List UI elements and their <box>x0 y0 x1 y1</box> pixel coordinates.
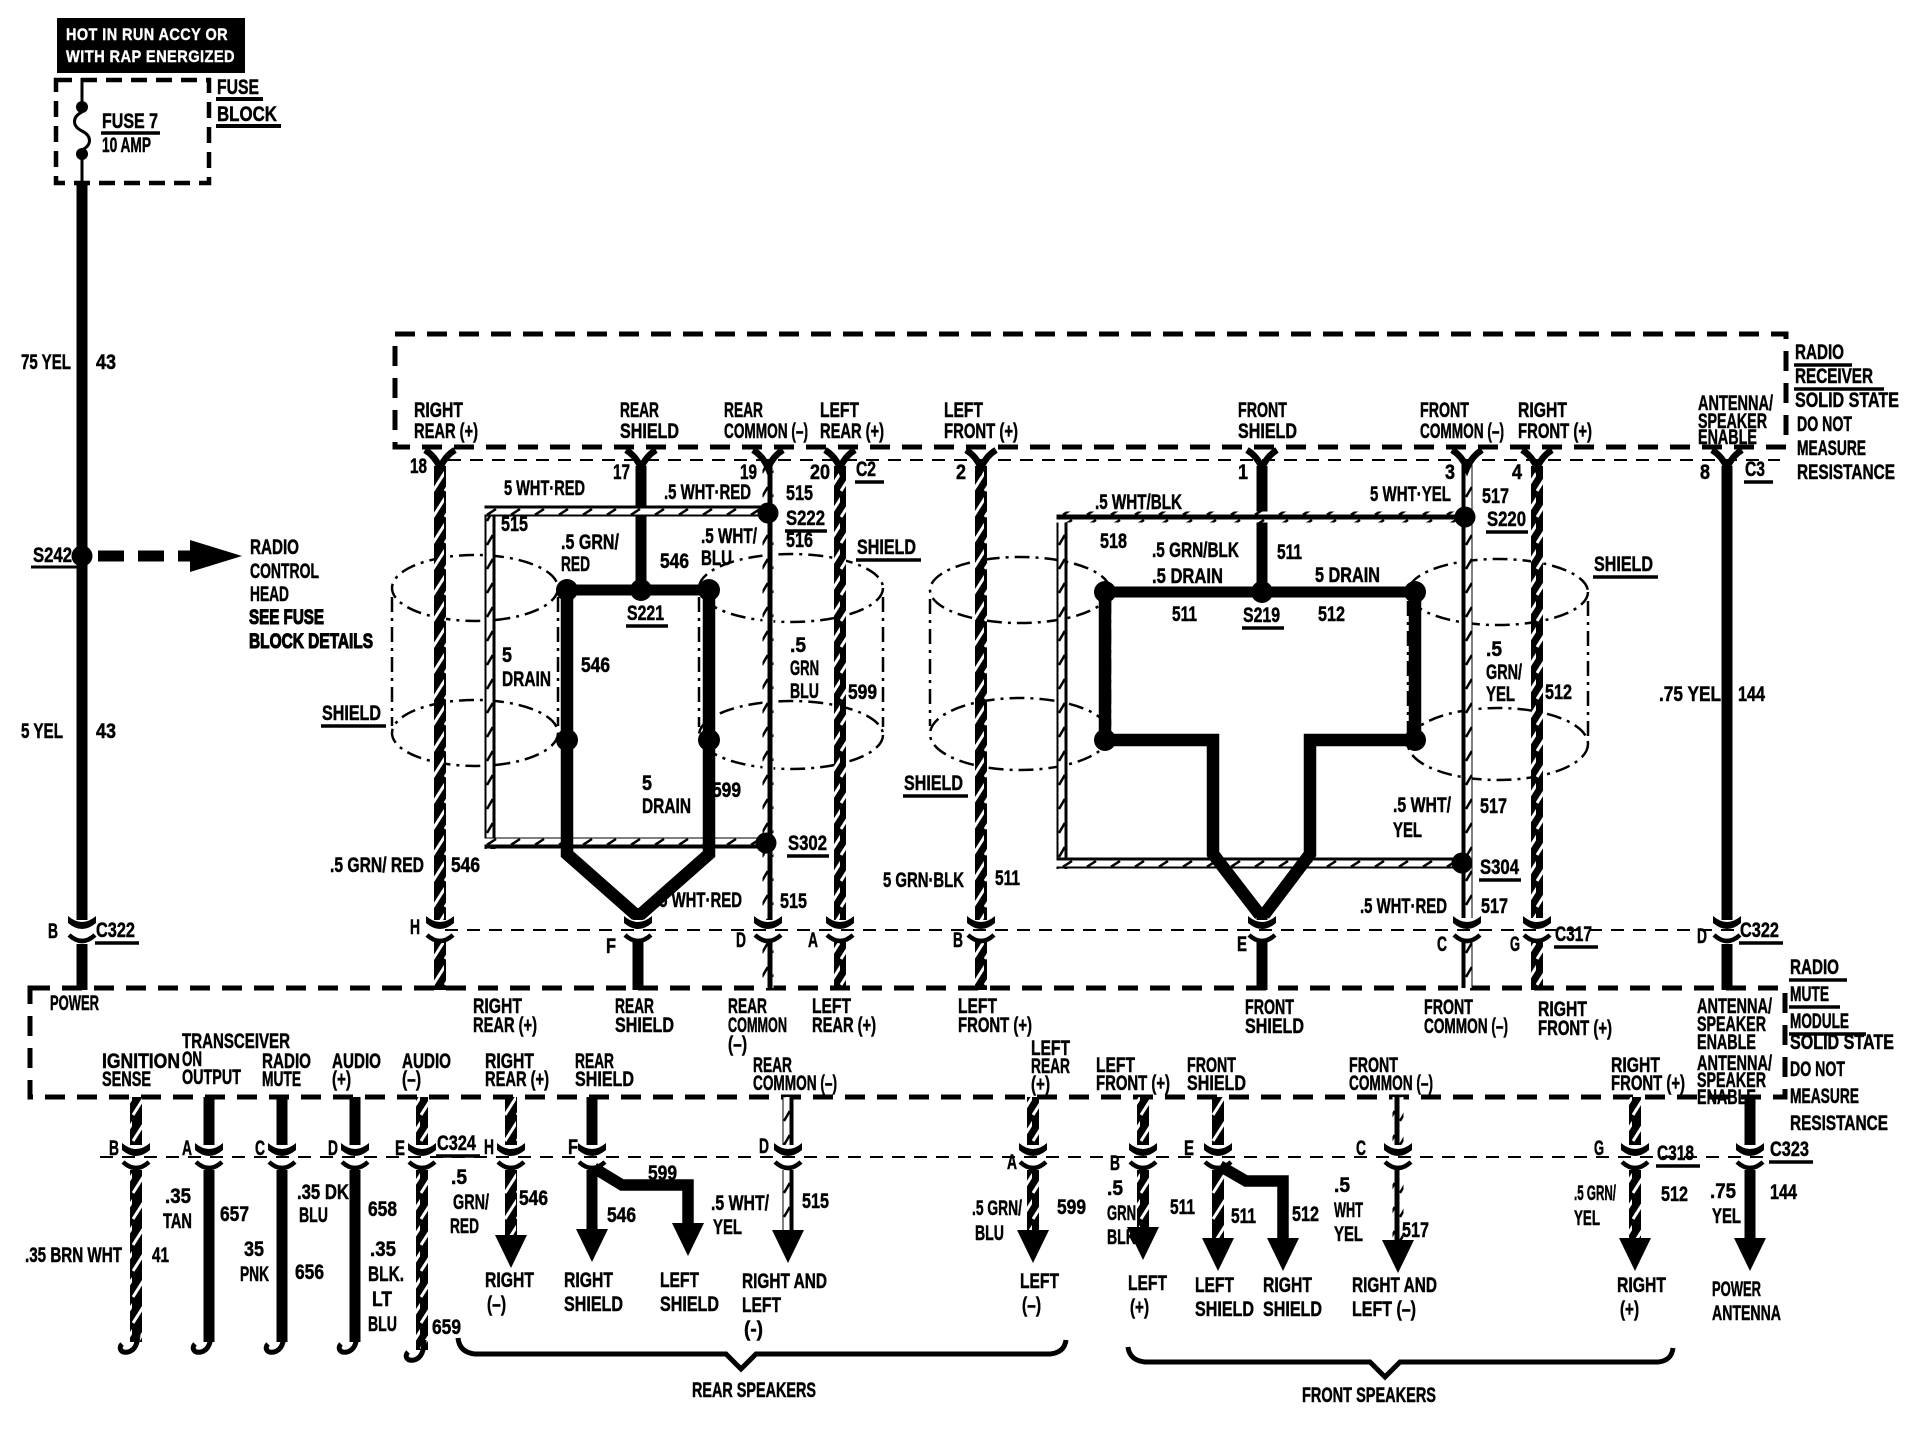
svg-text:F: F <box>568 1136 578 1159</box>
svg-text:.35: .35 <box>370 1238 396 1261</box>
svg-text:RIGHT: RIGHT <box>414 399 463 422</box>
svg-text:BLK.: BLK. <box>368 1263 404 1286</box>
connector line C324/C318/C323 below module <box>100 1156 1765 1158</box>
svg-text:5 GRN·BLK: 5 GRN·BLK <box>883 869 964 892</box>
svg-text:LEFT: LEFT <box>1195 1274 1234 1297</box>
module bottom wire E front shield 511 <box>1212 1097 1224 1145</box>
svg-text:B: B <box>953 929 963 952</box>
svg-text:DRAIN: DRAIN <box>502 668 551 691</box>
svg-text:REAR (+): REAR (+) <box>820 420 884 443</box>
svg-text:FRONT (+): FRONT (+) <box>1096 1072 1170 1095</box>
svg-text:599: 599 <box>1057 1196 1086 1219</box>
svg-text:(-): (-) <box>744 1318 763 1341</box>
fuse block dashed box <box>56 80 209 183</box>
svg-text:LEFT: LEFT <box>1020 1270 1059 1293</box>
svg-text:.35 DK: .35 DK <box>297 1181 349 1204</box>
svg-text:SHIELD: SHIELD <box>564 1293 623 1316</box>
svg-text:FRONT (+): FRONT (+) <box>958 1014 1032 1037</box>
svg-text:ENABLE: ENABLE <box>1698 426 1757 449</box>
svg-text:(+): (+) <box>1620 1298 1639 1321</box>
svg-text:(–): (–) <box>728 1033 747 1056</box>
radio control head note <box>249 536 373 653</box>
svg-text:.5: .5 <box>1334 1174 1350 1197</box>
svg-text:C317: C317 <box>1555 923 1592 946</box>
svg-text:RADIO: RADIO <box>1795 341 1844 364</box>
module bottom wire C front common shield-style 517 <box>1393 1097 1404 1145</box>
svg-text:BLK: BLK <box>1107 1226 1136 1249</box>
svg-text:515: 515 <box>501 513 528 536</box>
svg-text:A: A <box>182 1137 192 1160</box>
svg-text:YEL: YEL <box>1486 683 1515 706</box>
svg-text:RED: RED <box>561 553 590 576</box>
svg-text:REAR (+): REAR (+) <box>414 420 478 443</box>
svg-text:(–): (–) <box>402 1068 421 1091</box>
receiver pin connector line C2/C3 <box>448 459 1780 461</box>
svg-text:SHIELD: SHIELD <box>1594 553 1653 576</box>
svg-text:SHIELD: SHIELD <box>1238 420 1297 443</box>
pin fork 17 <box>626 450 656 468</box>
svg-text:75 YEL: 75 YEL <box>21 351 71 374</box>
pin fork 20 <box>825 450 855 468</box>
svg-text:BLU: BLU <box>701 547 732 570</box>
svg-text:.5 WHT/: .5 WHT/ <box>711 1192 769 1215</box>
svg-text:35: 35 <box>244 1238 264 1261</box>
svg-text:1: 1 <box>1238 461 1248 484</box>
svg-text:.5 GRN/: .5 GRN/ <box>972 1197 1022 1220</box>
svg-text:.5: .5 <box>1107 1177 1123 1200</box>
svg-text:SEE FUSE: SEE FUSE <box>249 606 324 629</box>
node front shield right drain tap <box>1404 729 1426 751</box>
svg-text:RESISTANCE: RESISTANCE <box>1790 1112 1888 1135</box>
splice S302 <box>756 833 777 854</box>
pin fork 3 <box>1452 450 1482 468</box>
node rear shield left drain tap <box>556 729 578 751</box>
svg-text:18: 18 <box>410 455 427 478</box>
power feed wire 43 from fuse to module <box>77 181 88 920</box>
module bottom wire C radio mute <box>277 1097 288 1145</box>
svg-text:S302: S302 <box>788 832 827 855</box>
svg-text:.5 DRAIN: .5 DRAIN <box>1152 565 1223 588</box>
rear speakers brace <box>458 1338 1066 1369</box>
svg-text:BLU: BLU <box>368 1313 397 1336</box>
svg-text:5: 5 <box>642 772 652 795</box>
svg-text:FRONT (+): FRONT (+) <box>1538 1017 1612 1040</box>
svg-text:515: 515 <box>780 890 807 913</box>
svg-text:SHIELD: SHIELD <box>904 772 963 795</box>
svg-text:RIGHT: RIGHT <box>1617 1274 1666 1297</box>
svg-text:POWER: POWER <box>1712 1278 1761 1301</box>
svg-text:.5 GRN/ RED: .5 GRN/ RED <box>330 854 424 877</box>
svg-text:YEL: YEL <box>1334 1223 1363 1246</box>
svg-text:WITH RAP ENERGIZED: WITH RAP ENERGIZED <box>66 47 235 66</box>
svg-text:517: 517 <box>1481 895 1508 918</box>
svg-text:.5 GRN/BLK: .5 GRN/BLK <box>1152 539 1239 562</box>
wire 3 front common shield-style <box>1462 464 1473 918</box>
module bottom wire F rear shield 546 <box>587 1097 598 1145</box>
front shield wire below E connector <box>1257 942 1268 990</box>
front speakers brace <box>1128 1347 1673 1377</box>
svg-text:SENSE: SENSE <box>102 1068 151 1091</box>
svg-text:C: C <box>1437 933 1447 956</box>
svg-text:GRN/: GRN/ <box>453 1191 489 1214</box>
svg-text:41: 41 <box>152 1244 169 1267</box>
svg-text:4: 4 <box>1512 461 1522 484</box>
svg-text:.5: .5 <box>451 1166 467 1189</box>
svg-text:C: C <box>255 1137 265 1160</box>
svg-text:ANTENNA: ANTENNA <box>1712 1302 1781 1325</box>
svg-text:FRONT (+): FRONT (+) <box>1518 420 1592 443</box>
svg-text:RADIO: RADIO <box>250 536 299 559</box>
rear-left shield cylinder <box>392 555 558 766</box>
svg-text:5 WHT·YEL: 5 WHT·YEL <box>1370 483 1451 506</box>
svg-text:C323: C323 <box>1770 1138 1809 1161</box>
svg-text:D: D <box>736 929 746 952</box>
module bottom wire antenna .75 YEL 144 to power antenna <box>1745 1097 1756 1145</box>
svg-text:FUSE 7: FUSE 7 <box>102 110 158 133</box>
svg-text:YEL: YEL <box>1574 1207 1600 1230</box>
svg-text:43: 43 <box>96 720 116 743</box>
svg-text:ENABLE: ENABLE <box>1697 1031 1756 1054</box>
dashed arrow to radio control head <box>98 540 242 572</box>
svg-text:FRONT SPEAKERS: FRONT SPEAKERS <box>1302 1384 1436 1407</box>
svg-text:SHIELD: SHIELD <box>322 702 381 725</box>
svg-text:RIGHT: RIGHT <box>564 1269 613 1292</box>
svg-text:REAR: REAR <box>724 399 763 422</box>
svg-text:POWER: POWER <box>50 992 99 1015</box>
module bottom wire A left rear (+) .5 GRN/BLU 599 <box>1027 1097 1039 1145</box>
connector B C322 on power wire <box>68 916 96 941</box>
svg-text:HOT IN RUN ACCY OR: HOT IN RUN ACCY OR <box>66 25 228 44</box>
svg-text:RESISTANCE: RESISTANCE <box>1797 461 1895 484</box>
wire 2 left front (+) hatched <box>975 466 987 920</box>
module bottom wire E audio (-) hatched <box>416 1097 428 1145</box>
svg-text:.5: .5 <box>790 634 806 657</box>
svg-text:C324: C324 <box>437 1132 476 1155</box>
svg-text:CONTROL: CONTROL <box>250 560 319 583</box>
svg-text:C2: C2 <box>856 458 876 481</box>
svg-text:LEFT (–): LEFT (–) <box>1352 1298 1416 1321</box>
svg-text:(+): (+) <box>1031 1073 1050 1096</box>
svg-text:512: 512 <box>1545 681 1572 704</box>
svg-text:10 AMP: 10 AMP <box>102 134 151 157</box>
svg-text:BLU: BLU <box>299 1204 328 1227</box>
svg-text:515: 515 <box>802 1190 829 1213</box>
svg-text:17: 17 <box>613 461 630 484</box>
svg-text:REAR (+): REAR (+) <box>812 1014 876 1037</box>
wire 8 antenna/speaker enable .75 YEL 144 <box>1722 466 1733 920</box>
svg-text:SHIELD: SHIELD <box>857 536 916 559</box>
svg-text:5 DRAIN: 5 DRAIN <box>1315 564 1380 587</box>
svg-text:SHIELD: SHIELD <box>1245 1015 1304 1038</box>
splice S219 node <box>1251 581 1273 603</box>
svg-text:144: 144 <box>1770 1181 1797 1204</box>
connector line C317/C322 above module <box>445 929 1740 931</box>
svg-text:SOLID STATE: SOLID STATE <box>1790 1031 1894 1054</box>
svg-text:511: 511 <box>1172 603 1197 626</box>
svg-text:.5 GRN/: .5 GRN/ <box>561 531 619 554</box>
svg-text:LEFT: LEFT <box>660 1269 699 1292</box>
node rear drain bus left <box>556 579 578 601</box>
svg-text:.5 WHT·RED: .5 WHT·RED <box>655 889 742 912</box>
svg-text:E: E <box>1184 1137 1194 1160</box>
svg-text:S220: S220 <box>1487 508 1526 531</box>
node front shield left drain tap <box>1094 729 1116 751</box>
svg-text:TAN: TAN <box>163 1210 192 1233</box>
svg-text:B: B <box>109 1137 119 1160</box>
branch 599 from F to left shield <box>594 1168 688 1226</box>
svg-text:517: 517 <box>1482 485 1509 508</box>
radio mute module title <box>1789 956 1894 1135</box>
splice S220 <box>1455 507 1476 528</box>
svg-text:511: 511 <box>1170 1196 1195 1219</box>
svg-text:.75: .75 <box>1710 1180 1736 1203</box>
splice S242 <box>72 546 93 567</box>
rear-right shield cylinder <box>699 554 883 769</box>
svg-text:5 YEL: 5 YEL <box>21 720 63 743</box>
wire 19 rear common shield-style <box>763 464 774 920</box>
svg-text:FRONT: FRONT <box>1420 399 1469 422</box>
svg-text:656: 656 <box>295 1261 324 1284</box>
header box HOT IN RUN <box>57 18 245 73</box>
branch 512 from E to right shield <box>1220 1166 1283 1240</box>
svg-text:20: 20 <box>810 461 830 484</box>
module bottom wire A transceiver on output <box>204 1097 215 1145</box>
svg-text:517: 517 <box>1480 795 1507 818</box>
svg-text:YEL: YEL <box>713 1216 742 1239</box>
svg-text:RIGHT AND: RIGHT AND <box>742 1270 827 1293</box>
node rear drain bus right <box>698 579 720 601</box>
svg-text:LEFT: LEFT <box>820 399 859 422</box>
svg-text:H: H <box>484 1136 494 1159</box>
svg-text:512: 512 <box>1661 1183 1688 1206</box>
svg-text:512: 512 <box>1292 1203 1319 1226</box>
svg-text:546: 546 <box>581 654 610 677</box>
splice S221 node <box>630 579 652 601</box>
svg-text:FRONT: FRONT <box>1238 399 1287 422</box>
svg-text:.5 WHT/BLK: .5 WHT/BLK <box>1095 491 1182 514</box>
svg-text:LEFT: LEFT <box>944 399 983 422</box>
radio mute module dashed box <box>30 988 1785 1097</box>
front-right shield cylinder <box>1408 559 1588 780</box>
svg-text:DRAIN: DRAIN <box>642 795 691 818</box>
front drain S219 bus <box>1099 587 1421 598</box>
svg-text:546: 546 <box>519 1187 548 1210</box>
splice label S242 <box>31 544 79 567</box>
front shield drain thin loop 517/518 <box>1057 512 1068 869</box>
svg-text:RED: RED <box>450 1215 479 1238</box>
svg-text:C318: C318 <box>1657 1142 1694 1165</box>
wire 1 front shield <box>1257 466 1268 594</box>
svg-text:3: 3 <box>1445 461 1455 484</box>
svg-text:MEASURE: MEASURE <box>1797 437 1866 460</box>
svg-text:MODULE: MODULE <box>1790 1010 1849 1033</box>
rear shield wire below F connector <box>633 942 644 990</box>
svg-text:599: 599 <box>848 681 877 704</box>
svg-text:517: 517 <box>1402 1219 1429 1242</box>
module bottom wire D rear common shield-style 515 <box>783 1097 794 1145</box>
pin fork 19 <box>753 450 783 468</box>
rear drain V wires 546/599 <box>567 588 709 915</box>
pin fork 18 <box>425 450 455 468</box>
fuse block label <box>216 76 281 126</box>
fuse F7 symbol <box>75 78 90 183</box>
svg-text:LT: LT <box>372 1288 392 1311</box>
svg-text:659: 659 <box>432 1316 461 1339</box>
svg-text:REAR SPEAKERS: REAR SPEAKERS <box>692 1379 816 1402</box>
radio receiver title <box>1794 341 1899 484</box>
svg-text:.5 WHT/: .5 WHT/ <box>701 525 757 548</box>
svg-text:COMMON (–): COMMON (–) <box>753 1072 837 1095</box>
svg-text:RADIO: RADIO <box>1790 956 1839 979</box>
svg-text:B: B <box>48 920 58 943</box>
svg-text:SHIELD: SHIELD <box>620 420 679 443</box>
svg-text:D: D <box>1697 925 1707 948</box>
svg-text:S221: S221 <box>627 602 664 625</box>
svg-text:E: E <box>395 1137 405 1160</box>
svg-text:RIGHT AND: RIGHT AND <box>1352 1274 1437 1297</box>
svg-text:546: 546 <box>451 854 480 877</box>
svg-text:511: 511 <box>995 867 1020 890</box>
svg-text:COMMON (–): COMMON (–) <box>1349 1072 1433 1095</box>
svg-text:(+): (+) <box>1130 1296 1149 1319</box>
svg-text:HEAD: HEAD <box>250 583 289 606</box>
svg-text:S219: S219 <box>1243 604 1280 627</box>
svg-text:MEASURE: MEASURE <box>1790 1085 1859 1108</box>
svg-text:C3: C3 <box>1745 458 1765 481</box>
svg-text:599: 599 <box>648 1162 677 1185</box>
svg-text:546: 546 <box>607 1204 636 1227</box>
svg-text:SHIELD: SHIELD <box>1263 1298 1322 1321</box>
svg-text:A: A <box>1007 1151 1017 1174</box>
svg-text:RIGHT: RIGHT <box>485 1269 534 1292</box>
wire 4 right front (+) hatched <box>1531 466 1543 918</box>
svg-text:599: 599 <box>712 779 741 802</box>
svg-text:GRN/: GRN/ <box>1486 661 1522 684</box>
svg-text:SHIELD: SHIELD <box>575 1068 634 1091</box>
svg-text:COMMON (–): COMMON (–) <box>1424 1015 1508 1038</box>
svg-text:MUTE: MUTE <box>262 1068 301 1091</box>
svg-text:518: 518 <box>1100 530 1127 553</box>
svg-text:.5 GRN/: .5 GRN/ <box>1574 1182 1616 1205</box>
svg-text:YEL: YEL <box>1712 1205 1741 1228</box>
node rear shield right drain tap <box>698 729 720 751</box>
svg-text:C322: C322 <box>1740 919 1779 942</box>
svg-text:5 WHT·RED: 5 WHT·RED <box>504 477 585 500</box>
svg-text:(–): (–) <box>487 1293 506 1316</box>
svg-text:BLOCK: BLOCK <box>217 103 277 126</box>
svg-text:FRONT (+): FRONT (+) <box>944 420 1018 443</box>
svg-text:COMMON (–): COMMON (–) <box>1420 420 1504 443</box>
svg-text:SHIELD: SHIELD <box>615 1014 674 1037</box>
svg-text:WHT: WHT <box>1334 1199 1363 1222</box>
pin fork 4 <box>1522 450 1552 468</box>
svg-text:DO NOT: DO NOT <box>1797 413 1852 436</box>
svg-text:E: E <box>1237 933 1247 956</box>
svg-text:657: 657 <box>220 1203 249 1226</box>
svg-text:5: 5 <box>502 644 512 667</box>
svg-text:ENABLE: ENABLE <box>1697 1086 1756 1109</box>
svg-text:RIGHT: RIGHT <box>1518 399 1567 422</box>
module bottom wire D audio (+) <box>350 1097 361 1145</box>
svg-text:(+): (+) <box>332 1068 351 1091</box>
pin fork 2 <box>966 450 996 468</box>
svg-text:BLU: BLU <box>790 680 819 703</box>
svg-text:LEFT: LEFT <box>1128 1272 1167 1295</box>
svg-text:D: D <box>759 1135 769 1158</box>
svg-text:515: 515 <box>786 482 813 505</box>
node front drain bus left <box>1094 581 1116 603</box>
svg-text:FRONT (+): FRONT (+) <box>1611 1072 1685 1095</box>
svg-text:.5: .5 <box>1486 638 1502 661</box>
svg-text:.75 YEL: .75 YEL <box>1659 683 1721 706</box>
svg-text:43: 43 <box>96 351 116 374</box>
wire 18 right rear (+) hatched <box>434 466 446 920</box>
svg-text:DO NOT: DO NOT <box>1790 1058 1845 1081</box>
splice S304 <box>1452 853 1473 874</box>
svg-text:REAR: REAR <box>620 399 659 422</box>
svg-text:H: H <box>410 916 420 939</box>
splice S222 <box>758 503 779 524</box>
module bottom wire H right rear (+) .5 GRN/RED 546 <box>505 1097 517 1145</box>
svg-text:C: C <box>1356 1137 1366 1160</box>
svg-text:COMMON (–): COMMON (–) <box>724 420 808 443</box>
svg-text:516: 516 <box>786 529 813 552</box>
svg-text:.35 BRN WHT: .35 BRN WHT <box>25 1244 122 1267</box>
svg-text:2: 2 <box>956 461 966 484</box>
svg-text:F: F <box>606 935 616 958</box>
front drain V wires 511/512 <box>1105 590 1415 915</box>
module bottom wire G right front (+) .5 GRN/YEL 512 <box>1629 1097 1641 1145</box>
svg-text:.5 WHT·RED: .5 WHT·RED <box>664 481 751 504</box>
svg-text:144: 144 <box>1738 683 1765 706</box>
wire 20 left rear (+) hatched <box>834 466 846 920</box>
svg-text:SHIELD: SHIELD <box>1195 1298 1254 1321</box>
rear shield drain thin loop 515/516 <box>485 506 496 849</box>
svg-text:MUTE: MUTE <box>1790 983 1829 1006</box>
pin fork 1 <box>1247 450 1277 468</box>
svg-text:S304: S304 <box>1480 856 1519 879</box>
svg-text:FUSE: FUSE <box>217 76 259 99</box>
svg-text:BLOCK DETAILS: BLOCK DETAILS <box>249 630 373 653</box>
svg-text:YEL: YEL <box>1393 819 1422 842</box>
svg-text:SHIELD: SHIELD <box>1187 1072 1246 1095</box>
svg-text:511: 511 <box>1231 1205 1256 1228</box>
svg-text:OUTPUT: OUTPUT <box>182 1066 241 1089</box>
svg-text:.5 WHT·RED: .5 WHT·RED <box>1360 895 1447 918</box>
upper connector row symbols <box>426 916 454 941</box>
svg-text:(–): (–) <box>1022 1294 1041 1317</box>
svg-text:C322: C322 <box>96 919 135 942</box>
svg-text:.5 WHT/: .5 WHT/ <box>1393 794 1451 817</box>
svg-text:PNK: PNK <box>240 1263 269 1286</box>
svg-text:S242: S242 <box>33 544 72 567</box>
svg-text:511: 511 <box>1277 541 1302 564</box>
svg-text:SOLID STATE: SOLID STATE <box>1795 389 1899 412</box>
svg-text:LEFT: LEFT <box>742 1294 781 1317</box>
svg-text:SHIELD: SHIELD <box>660 1293 719 1316</box>
svg-text:8: 8 <box>1700 461 1710 484</box>
svg-text:A: A <box>808 929 818 952</box>
svg-text:.35: .35 <box>165 1185 191 1208</box>
svg-text:546: 546 <box>660 550 689 573</box>
rear drain S221 bus <box>561 585 715 596</box>
svg-text:S222: S222 <box>786 507 825 530</box>
svg-text:GRN: GRN <box>1107 1202 1136 1225</box>
front-left shield cylinder <box>930 557 1110 770</box>
svg-text:B: B <box>1110 1152 1120 1175</box>
module bottom wire B left front (+) .5 GRN BLK 511 <box>1137 1097 1149 1145</box>
svg-text:GRN: GRN <box>790 657 819 680</box>
